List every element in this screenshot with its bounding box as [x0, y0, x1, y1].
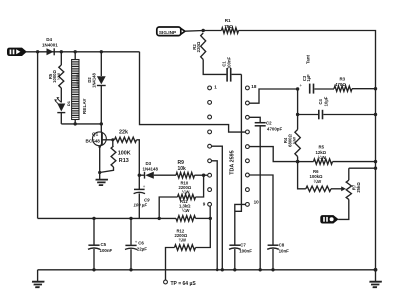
svg-text:RELAY: RELAY — [82, 98, 88, 115]
svg-text:220Ω: 220Ω — [196, 41, 201, 52]
svg-text:22µF: 22µF — [137, 247, 147, 252]
diode D3 1N4148 — [139, 161, 176, 179]
svg-text:C8: C8 — [279, 243, 285, 248]
node pin6 leg ground — [216, 268, 219, 271]
resistor R10 2200ohm — [159, 175, 203, 218]
transistor Q1 BC548 — [86, 124, 113, 173]
resistor R11 1.3k — [176, 199, 196, 221]
potentiometer R7 25k — [338, 167, 377, 220]
IC left pins 1-9 — [208, 86, 212, 90]
LED D1 — [54, 97, 65, 124]
ground under Q1 — [95, 173, 108, 186]
ground bottom-left — [31, 270, 44, 287]
svg-text:D4: D4 — [46, 37, 52, 42]
node Q1 base — [111, 138, 114, 141]
test point TP — [164, 280, 197, 287]
capacitor C9 100uF — [134, 175, 151, 218]
svg-text:D3: D3 — [146, 161, 152, 166]
svg-text:C2: C2 — [266, 120, 272, 125]
capacitor C2 4700pF — [249, 117, 282, 271]
wire pin10 to C7 — [235, 204, 246, 244]
svg-text:¼W: ¼W — [318, 155, 327, 160]
node supply-left — [36, 50, 39, 53]
node Q1 emitter / R13 — [98, 171, 101, 174]
capacitor C6 22uF — [125, 217, 147, 272]
svg-text:C4: C4 — [318, 98, 323, 104]
node R5 branch — [60, 50, 63, 53]
svg-text:TP = 64 µS: TP = 64 µS — [171, 281, 197, 287]
resistor R2 220ohm — [201, 33, 227, 74]
svg-text:C6: C6 — [138, 241, 144, 246]
resistor R1 75ohm — [222, 18, 239, 34]
svg-text:¼W: ¼W — [292, 137, 297, 144]
resistor R5 1000ohm — [60, 52, 62, 65]
wire supply rail — [26, 51, 140, 53]
wire pin12 to C8 — [249, 175, 273, 245]
svg-text:1N4148: 1N4148 — [91, 72, 96, 87]
connector SIG.INP — [157, 27, 185, 36]
svg-text:100nF: 100nF — [100, 248, 113, 253]
wire rail between C3 and C4 lines — [297, 89, 299, 115]
node C3 line left — [296, 87, 299, 90]
svg-text:1µF: 1µF — [306, 74, 311, 82]
svg-text:10nF: 10nF — [279, 249, 290, 254]
svg-text:4700pF: 4700pF — [267, 126, 282, 131]
svg-text:¼W: ¼W — [182, 190, 189, 195]
resistor 22k — [115, 130, 137, 143]
svg-text:Q1: Q1 — [92, 131, 99, 136]
svg-text:10µF: 10µF — [324, 96, 329, 106]
node D3/C9 — [138, 174, 141, 177]
svg-text:470Ω: 470Ω — [335, 82, 346, 87]
capacitor C7 100nF — [229, 243, 252, 272]
svg-text:+: + — [143, 184, 146, 189]
svg-text:100nF: 100nF — [227, 57, 232, 70]
capacitor C5 100nF — [88, 217, 113, 272]
resistor R6 100k with wiper arrow — [298, 162, 346, 192]
diode D4 1N4001 — [42, 37, 58, 55]
resistor R3 470ohm — [334, 77, 376, 92]
IC right pins 18-10 — [246, 86, 250, 90]
wire left vertical supply to bottom line — [37, 52, 39, 219]
resistor R5 12k — [298, 145, 378, 165]
diode D2 1N4148 — [97, 52, 106, 124]
wire pin17 up to C3 line — [249, 89, 297, 103]
connector video output — [321, 216, 338, 223]
svg-text:C5: C5 — [101, 242, 107, 247]
svg-text:¼W: ¼W — [182, 208, 189, 213]
svg-text:R1: R1 — [225, 18, 231, 23]
wire bottom 12V line — [38, 217, 176, 219]
node R4/R5/R6 junction — [296, 160, 300, 164]
relay coil RELAY A066380 — [72, 52, 79, 124]
svg-text:¼W: ¼W — [179, 238, 186, 243]
resistor R13 100K — [100, 140, 131, 173]
svg-text:1N4148: 1N4148 — [143, 166, 159, 171]
svg-text:TDA 2595: TDA 2595 — [230, 150, 236, 174]
node pin9 riser — [209, 217, 212, 220]
svg-text:A066380: A066380 — [76, 73, 80, 87]
svg-text:100K: 100K — [118, 151, 131, 157]
node rail bottom right — [374, 268, 378, 272]
svg-text:22k: 22k — [119, 130, 128, 136]
wire 22k to D3 node — [137, 140, 140, 175]
capacitor C1 100nF — [227, 68, 241, 82]
svg-text:D1: D1 — [66, 100, 71, 106]
connector J1 supply input — [7, 48, 26, 55]
node relay bottom — [74, 122, 77, 125]
node pin7/R10 — [202, 174, 205, 177]
svg-text:75Ω: 75Ω — [224, 24, 233, 29]
ground bottom-right — [369, 270, 382, 287]
svg-text:C7: C7 — [240, 243, 246, 248]
svg-text:¼W: ¼W — [56, 73, 61, 80]
svg-text:100nF: 100nF — [239, 249, 252, 254]
svg-text:Tant: Tant — [305, 54, 310, 63]
svg-text:9: 9 — [203, 201, 206, 206]
svg-text:18: 18 — [251, 84, 257, 89]
IC U1 TDA 2595 body — [235, 74, 242, 211]
node D2 branch — [100, 50, 103, 53]
wire signal line — [185, 30, 222, 33]
svg-text:BC548: BC548 — [86, 139, 101, 144]
svg-text:100 µF: 100 µF — [134, 203, 148, 208]
wire bottom of relay block — [61, 123, 101, 125]
capacitor C3 1uF tantalum — [299, 84, 334, 94]
node rail at C3 line — [374, 87, 377, 90]
resistor R12 2200ohm — [166, 218, 211, 280]
svg-text:R13: R13 — [119, 158, 129, 164]
svg-text:¼W: ¼W — [314, 179, 323, 184]
capacitor C8 10nF — [267, 243, 289, 272]
resistor R4 6800ohm — [295, 115, 300, 162]
wire from 12V corner crossing to pin15 — [140, 52, 246, 132]
wire ground rail — [38, 269, 376, 271]
svg-text:+: + — [299, 84, 302, 89]
wire pin14 dogleg to R5 line — [249, 147, 297, 162]
wire pin5 to ground — [212, 146, 223, 270]
node R2 tap — [202, 29, 205, 32]
node Q1 collector — [100, 122, 103, 125]
capacitor C4 10uF line — [296, 110, 377, 120]
node pin5 leg ground — [221, 268, 224, 271]
svg-text:R9: R9 — [178, 160, 185, 166]
svg-text:10k: 10k — [178, 166, 187, 172]
svg-text:25kΩ: 25kΩ — [356, 182, 361, 193]
node R10 on bottom line — [158, 217, 161, 220]
svg-text:SIG.INP: SIG.INP — [159, 30, 176, 35]
svg-text:1N4001: 1N4001 — [42, 43, 58, 48]
svg-text:1: 1 — [214, 84, 217, 89]
wire to right rail — [239, 31, 376, 270]
resistor R9 10k — [176, 160, 208, 178]
wire pin9 to R11/R12 — [209, 206, 211, 218]
svg-text:10: 10 — [254, 200, 260, 205]
wire pin6 to ground — [212, 161, 218, 270]
node relay branch — [74, 50, 77, 53]
